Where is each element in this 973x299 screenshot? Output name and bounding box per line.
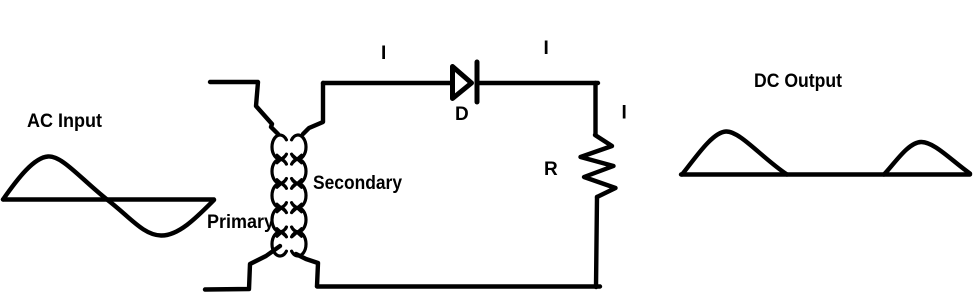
svg-text:I: I: [622, 103, 627, 124]
DC output axis wire: [681, 172, 970, 176]
AC input axis wire: [3, 197, 214, 201]
svg-text:I: I: [544, 38, 549, 59]
transformer primary bottom lead wire: [205, 246, 280, 290]
svg-text:R: R: [544, 159, 558, 180]
svg-text:D: D: [455, 104, 469, 125]
transformer primary winding L1: [272, 135, 286, 256]
wire right vertical bottom: [596, 197, 597, 287]
resistor R: [581, 135, 616, 197]
transformer secondary bottom lead wire: [296, 254, 318, 286]
transformer secondary winding L2: [292, 135, 306, 256]
wire diode to top-right corner: [479, 81, 598, 85]
diode D: [453, 62, 478, 102]
transformer secondary top lead wire: [303, 83, 323, 134]
wire secondary to diode anode: [323, 81, 451, 85]
wire right vertical top: [593, 83, 597, 135]
svg-text:I: I: [381, 43, 386, 64]
svg-text:Secondary: Secondary: [313, 173, 402, 194]
svg-text:AC Input: AC Input: [27, 111, 103, 132]
AC input sine waveform: [3, 156, 214, 235]
DC output waveform (half-wave rectified humps): [682, 131, 970, 174]
transformer primary top lead wire: [210, 82, 278, 134]
svg-text:DC Output: DC Output: [754, 71, 843, 92]
svg-text:Primary: Primary: [207, 212, 274, 233]
bottom wire: [317, 284, 600, 288]
